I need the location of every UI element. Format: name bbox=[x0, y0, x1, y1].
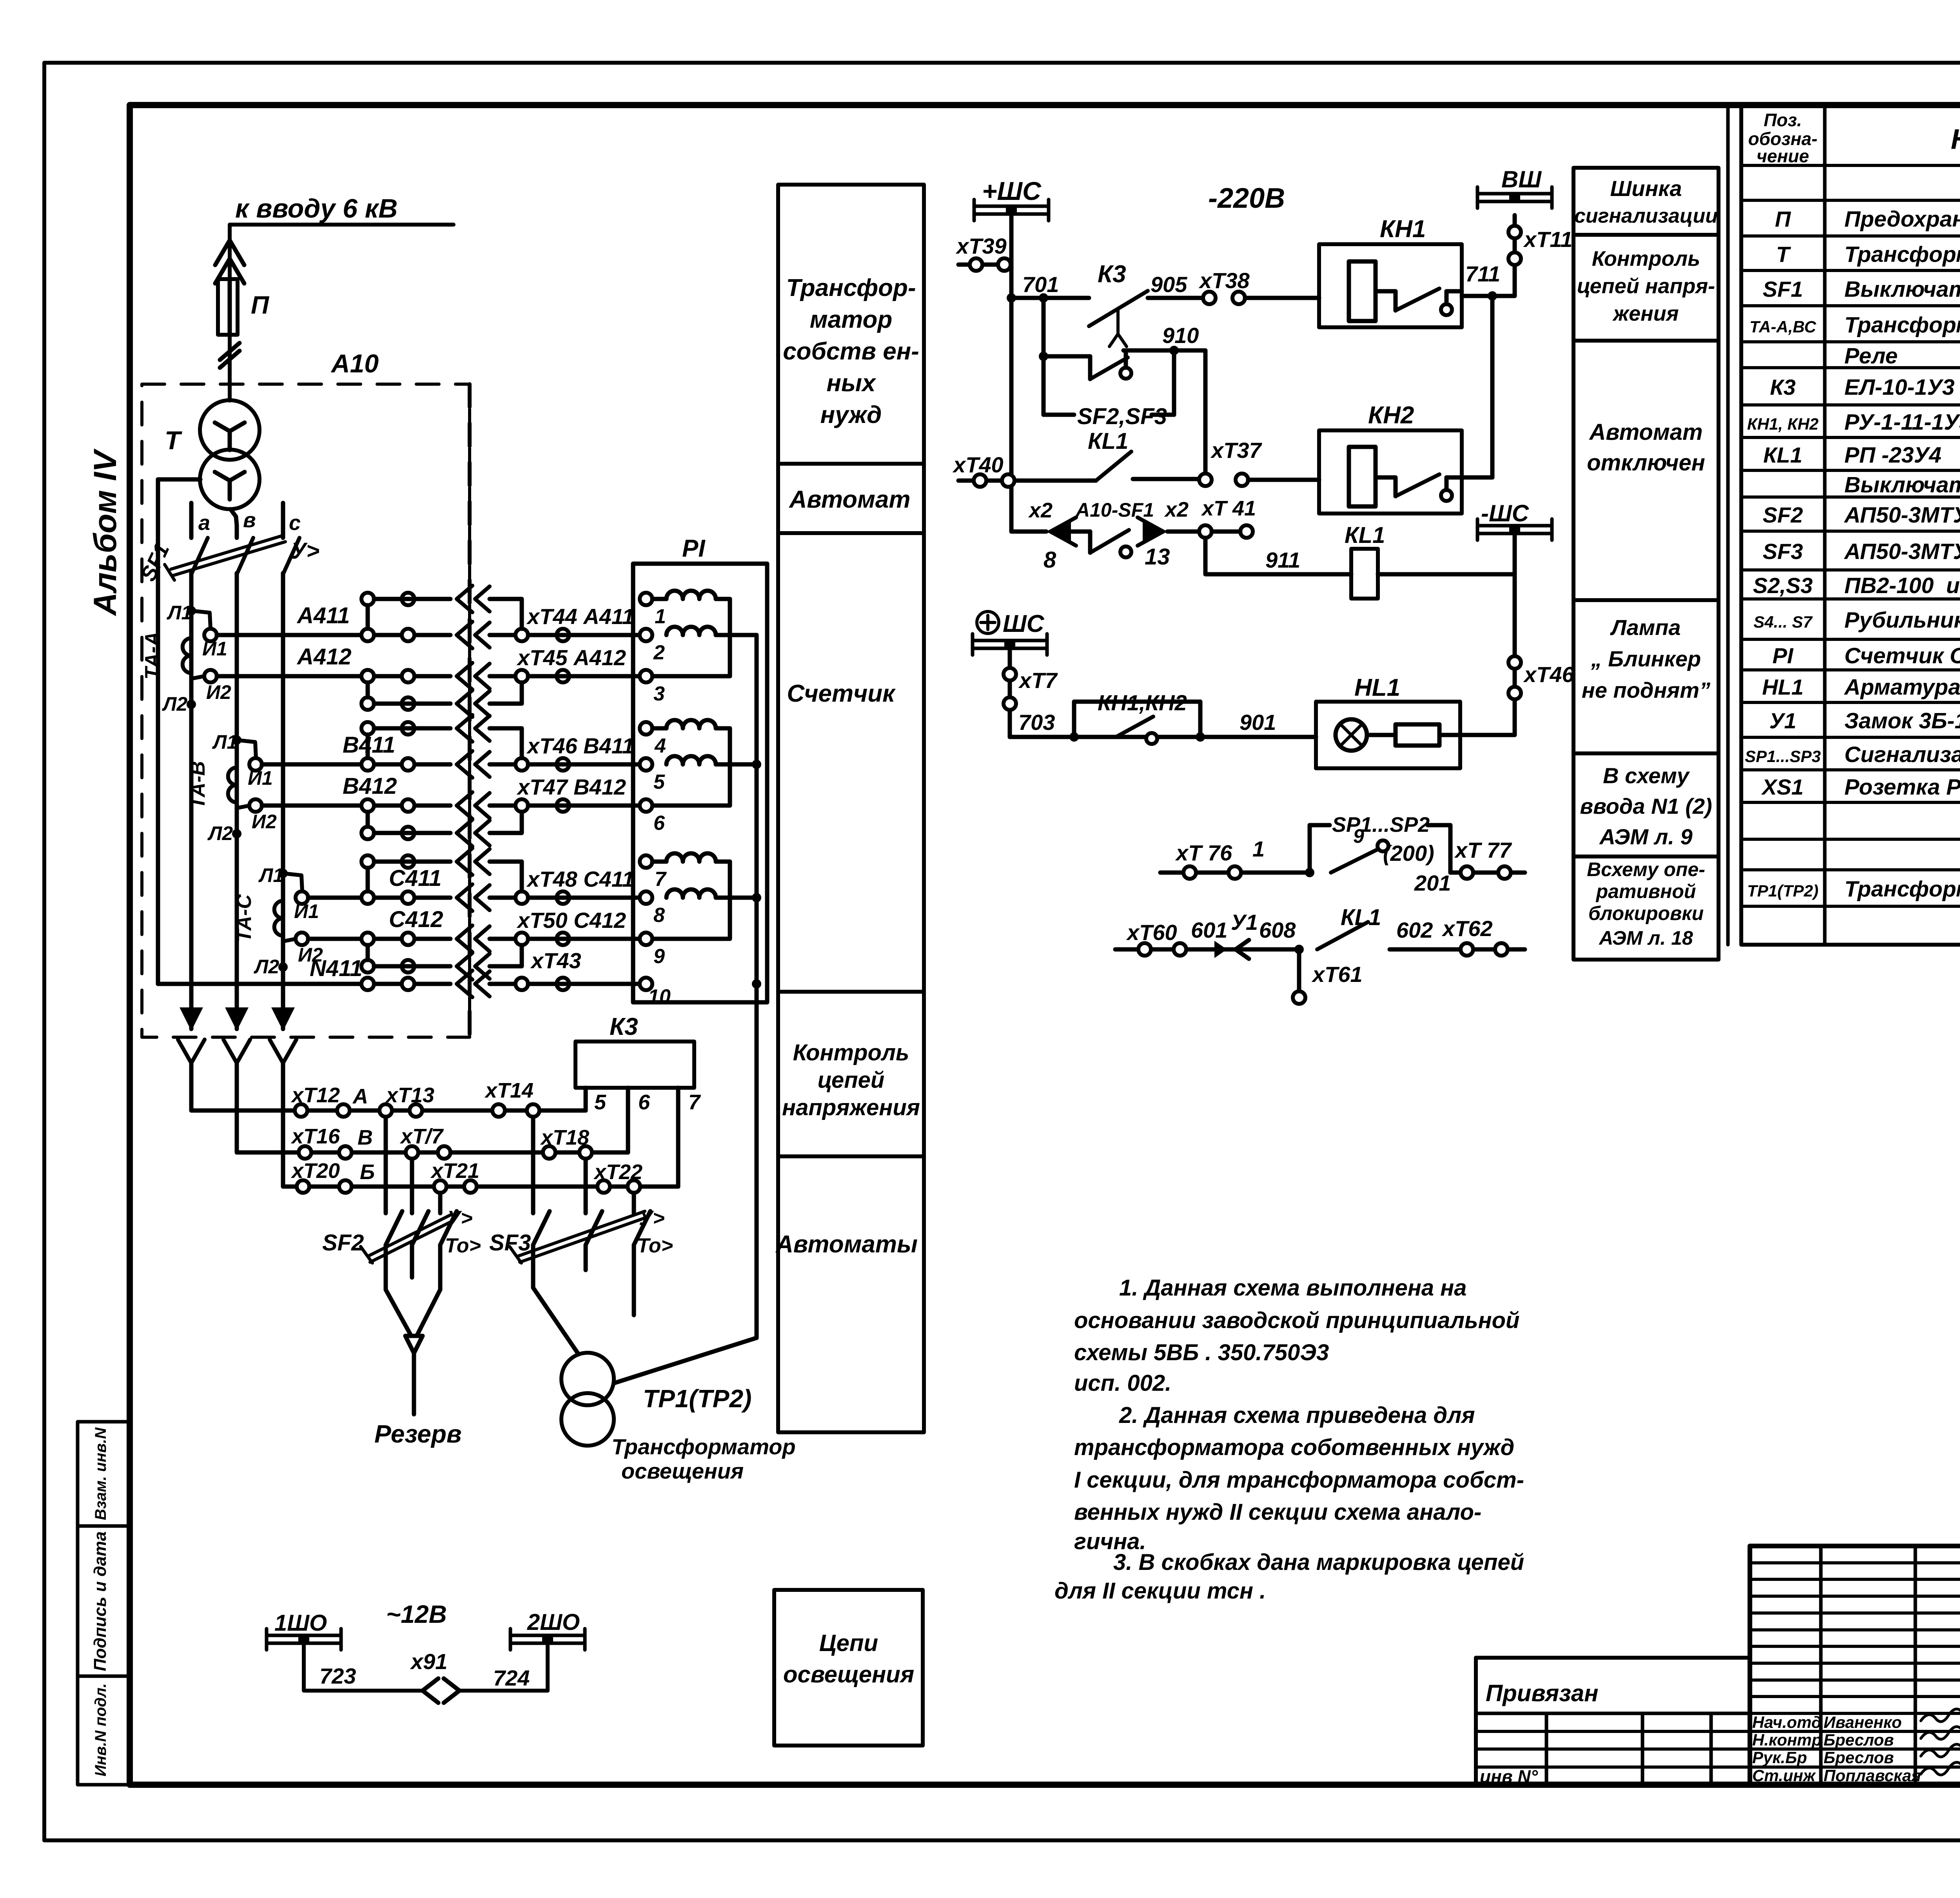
svg-text:хТ46: хТ46 bbox=[1523, 662, 1574, 687]
svg-text:х91: х91 bbox=[410, 1649, 447, 1674]
breaker SF3 (three-pole) bbox=[489, 1117, 673, 1315]
wire В412 bbox=[249, 773, 646, 819]
svg-text:Привязан: Привязан bbox=[1486, 1680, 1598, 1706]
svg-text:8: 8 bbox=[1044, 547, 1056, 573]
svg-text:Поплавская: Поплавская bbox=[1824, 1766, 1921, 1785]
arrow up (to 6kV input) bbox=[215, 240, 244, 283]
svg-text:собств ен-: собств ен- bbox=[783, 338, 919, 365]
svg-text:ШС: ШС bbox=[1003, 610, 1045, 637]
svg-text:(200): (200) bbox=[1383, 841, 1434, 866]
table row SF1 bbox=[1763, 276, 1960, 302]
svg-text:601: 601 bbox=[1191, 918, 1227, 942]
svg-text:Сигнализатор дуговых замыканий: Сигнализатор дуговых замыканий bbox=[1844, 742, 1960, 767]
svg-text:Наименование: Наименование bbox=[1951, 124, 1960, 155]
svg-text:А411: А411 bbox=[296, 603, 350, 628]
lighting transformer ТР1(ТР2) bbox=[533, 1288, 796, 1483]
svg-text:цепей: цепей bbox=[818, 1067, 885, 1093]
svg-text:К3: К3 bbox=[610, 1013, 638, 1040]
shorting link upper (ТА-С) bbox=[361, 848, 522, 891]
svg-text:SF1: SF1 bbox=[1763, 277, 1803, 301]
table row Т bbox=[1776, 241, 1960, 267]
svg-text:5: 5 bbox=[653, 771, 665, 793]
svg-text:724: 724 bbox=[493, 1666, 530, 1690]
svg-text:инв N°: инв N° bbox=[1480, 1766, 1538, 1787]
wire С412 bbox=[296, 907, 646, 952]
svg-text:У>: У> bbox=[639, 1207, 665, 1230]
svg-text:723: 723 bbox=[319, 1664, 356, 1688]
svg-text:Л2: Л2 bbox=[254, 956, 279, 978]
svg-text:отключен: отключен bbox=[1587, 450, 1705, 475]
table header bbox=[1748, 110, 1960, 166]
bus ВШ bbox=[1477, 166, 1552, 208]
reserve feeder arrow (Резерв) bbox=[374, 1290, 462, 1448]
table row У1 bbox=[1769, 708, 1960, 733]
svg-text:ных: ных bbox=[827, 370, 877, 397]
svg-text:РУ-1-11-1У3 0,1А: РУ-1-11-1У3 0,1А bbox=[1844, 410, 1960, 435]
svg-text:703: 703 bbox=[1018, 710, 1055, 735]
svg-text:КL1: КL1 bbox=[1341, 905, 1381, 930]
plug-in contact (выдвижной элемент) bbox=[270, 984, 296, 1086]
svg-text:С411: С411 bbox=[389, 866, 441, 891]
svg-text:Контроль: Контроль bbox=[793, 1040, 909, 1065]
svg-text:РП -23У4 -220В: РП -23У4 -220В bbox=[1844, 443, 1960, 468]
svg-text:хТ43: хТ43 bbox=[530, 948, 581, 973]
svg-text:Автомат: Автомат bbox=[788, 486, 910, 513]
svg-text:схемы 5ВБ . 350.750Э3: схемы 5ВБ . 350.750Э3 bbox=[1074, 1340, 1329, 1365]
table row КН1, КН2 bbox=[1747, 409, 1960, 435]
svg-text:НL1: НL1 bbox=[1762, 675, 1804, 699]
wire row A (хТ12 А хТ13 хТ14) bbox=[191, 1079, 586, 1117]
plug-in contact (выдвижной элемент) bbox=[223, 984, 250, 1086]
svg-text:Л1: Л1 bbox=[167, 602, 192, 624]
svg-text:910: 910 bbox=[1162, 323, 1199, 348]
svg-text:Реле: Реле bbox=[1844, 343, 1898, 368]
svg-text:S4... S7: S4... S7 bbox=[1753, 613, 1813, 631]
svg-text:хТ7: хТ7 bbox=[1018, 668, 1058, 693]
svg-text:Автомат: Автомат bbox=[1588, 419, 1702, 445]
svg-text:К3: К3 bbox=[1098, 261, 1126, 288]
svg-text:И2: И2 bbox=[206, 681, 231, 703]
title block narrow grid rows bbox=[1750, 1563, 1960, 1767]
wire row B (хТ16 В хТ17 хТ18) bbox=[237, 1086, 628, 1159]
svg-text:608: 608 bbox=[1259, 918, 1296, 942]
svg-text:КL1: КL1 bbox=[1345, 523, 1385, 548]
svg-text:Замок 3Б-1У3: Замок 3Б-1У3 bbox=[1844, 708, 1960, 733]
svg-text:хТ61: хТ61 bbox=[1311, 962, 1363, 987]
svg-text:Всхему опе-: Всхему опе- bbox=[1587, 858, 1705, 880]
svg-text:А412: А412 bbox=[296, 644, 352, 670]
svg-text:АП50-3МТУ3 Ур 50А отс.11: АП50-3МТУ3 Ур 50А отс.11 bbox=[1844, 503, 1960, 528]
table row ХS1 bbox=[1761, 774, 1960, 800]
svg-text:Подпись и дата: Подпись и дата bbox=[91, 1531, 110, 1671]
svg-text:2ШО: 2ШО bbox=[527, 1609, 580, 1635]
label Автомат отключен bbox=[1587, 419, 1705, 475]
svg-text:Л1: Л1 bbox=[212, 731, 238, 753]
transformer secondary to three phases bbox=[198, 508, 301, 535]
svg-text:Инв.N подл.: Инв.N подл. bbox=[92, 1683, 109, 1776]
svg-text:хТ21: хТ21 bbox=[430, 1159, 479, 1183]
svg-text:хТ46 В411: хТ46 В411 bbox=[526, 733, 634, 758]
wire feeder vertical bbox=[228, 225, 232, 384]
svg-text:в: в bbox=[243, 508, 256, 532]
svg-text:хТ22: хТ22 bbox=[593, 1160, 642, 1184]
contact КL1 (row 3) bbox=[1011, 428, 1199, 481]
svg-text:711: 711 bbox=[1465, 261, 1500, 286]
svg-text:Нач.отд: Нач.отд bbox=[1752, 1713, 1822, 1731]
svg-text:905: 905 bbox=[1151, 272, 1187, 297]
svg-text:1: 1 bbox=[1252, 836, 1265, 861]
label Автомат bbox=[788, 486, 910, 513]
lighting bus 2ШО bbox=[510, 1609, 585, 1650]
terminal хТ7 bbox=[1004, 650, 1058, 737]
terminal хТ46 bbox=[1508, 574, 1574, 735]
svg-text:НL1: НL1 bbox=[1354, 674, 1400, 701]
bus ⊕ШС bbox=[973, 610, 1047, 655]
svg-text:I секции, для трансформатора: I секции, для трансформатора собст- bbox=[1074, 1467, 1524, 1493]
table row Реле bbox=[1844, 343, 1898, 368]
svg-text:ВШ: ВШ bbox=[1501, 166, 1542, 192]
title block frame bbox=[1750, 1546, 1960, 1785]
relay К3 box (voltage control) bbox=[575, 1013, 701, 1187]
table row SF3 bbox=[1763, 539, 1960, 564]
svg-text:КН1, КН2: КН1, КН2 bbox=[1747, 415, 1818, 433]
svg-text:ТР1(ТР2): ТР1(ТР2) bbox=[643, 1384, 751, 1413]
svg-text:1: 1 bbox=[655, 605, 666, 628]
wire 910 loop with contact bbox=[1039, 298, 1205, 475]
svg-text:„ Блинкер: „ Блинкер bbox=[1591, 646, 1701, 671]
svg-text:Т: Т bbox=[1776, 242, 1791, 267]
function column box bbox=[778, 185, 924, 1432]
svg-text:7: 7 bbox=[688, 1091, 701, 1114]
svg-text:Л1: Л1 bbox=[258, 864, 284, 886]
table row П bbox=[1775, 206, 1960, 232]
svg-text:хТ44 А411: хТ44 А411 bbox=[526, 604, 634, 629]
shorting link lower (ТА-А) bbox=[361, 682, 522, 717]
svg-text:не поднят”: не поднят” bbox=[1582, 678, 1710, 702]
svg-text:911: 911 bbox=[1265, 548, 1300, 572]
svg-text:5: 5 bbox=[594, 1091, 606, 1114]
svg-text:Бреслов: Бреслов bbox=[1824, 1731, 1894, 1749]
svg-text:хТ62: хТ62 bbox=[1441, 916, 1493, 941]
svg-text:Иваненко: Иваненко bbox=[1824, 1713, 1902, 1731]
svg-text:хТ18: хТ18 bbox=[540, 1126, 589, 1149]
disconnect hatch marks bbox=[220, 343, 240, 368]
svg-text:У1: У1 bbox=[1231, 910, 1258, 934]
svg-text:Поз.: Поз. bbox=[1764, 110, 1802, 130]
svg-text:201: 201 bbox=[1414, 871, 1451, 895]
terminal хТ41 bbox=[1199, 525, 1253, 538]
svg-text:10: 10 bbox=[648, 985, 671, 1008]
table row КL1 bbox=[1763, 442, 1960, 468]
svg-text:~12В: ~12В bbox=[386, 1600, 447, 1628]
svg-text:701: 701 bbox=[1022, 272, 1059, 297]
svg-text:к вводу 6 кВ: к вводу 6 кВ bbox=[235, 194, 397, 223]
svg-text:основании заводской принципи: основании заводской принципиальной bbox=[1074, 1308, 1519, 1333]
terminal хТ38 bbox=[1198, 268, 1319, 304]
svg-text:АЭМ л. 18: АЭМ л. 18 bbox=[1598, 927, 1693, 949]
svg-text:ТА-В: ТА-В bbox=[187, 761, 209, 809]
current transformer ТА-В bbox=[187, 731, 277, 844]
svg-text:9: 9 bbox=[1353, 825, 1364, 847]
svg-text:РI: РI bbox=[682, 535, 706, 562]
svg-text:N411: N411 bbox=[310, 956, 362, 981]
svg-text:-220В: -220В bbox=[1208, 183, 1285, 214]
shorting link upper (ТА-А) bbox=[361, 586, 522, 629]
svg-text:Ст.инж: Ст.инж bbox=[1752, 1766, 1816, 1785]
wire +ШС vertical bbox=[1007, 215, 1016, 532]
svg-text:хТ38: хТ38 bbox=[1198, 268, 1250, 293]
wire 723 Х91 724 bbox=[304, 1644, 548, 1703]
svg-text:Трансформатор ТН3-40/10-81: Трансформатор ТН3-40/10-81 40кВА bbox=[1844, 242, 1960, 267]
svg-text:КН1: КН1 bbox=[1380, 216, 1426, 243]
wire N411 (neutral) bbox=[158, 479, 646, 997]
relay КН2 bbox=[1319, 402, 1462, 514]
svg-text:ративной: ративной bbox=[1595, 880, 1696, 902]
svg-text:SF2: SF2 bbox=[1763, 503, 1803, 527]
svg-text:хТ47 В412: хТ47 В412 bbox=[516, 775, 626, 799]
svg-text:Счетчик: Счетчик bbox=[787, 680, 896, 707]
wire КН2 return to 711 bbox=[1462, 296, 1492, 477]
svg-text:с: с bbox=[289, 511, 301, 535]
svg-text:венных нужд II секции схема: венных нужд II секции схема анало- bbox=[1074, 1499, 1481, 1525]
svg-text:901: 901 bbox=[1240, 710, 1276, 735]
terminal хТ40 bbox=[952, 452, 1014, 487]
svg-text:У1: У1 bbox=[1769, 708, 1796, 733]
svg-text:Арматура АЕ32522лУ2 -220В: Арматура АЕ32522лУ2 -220В bbox=[1844, 675, 1960, 700]
svg-text:хТ39: хТ39 bbox=[955, 234, 1007, 258]
svg-text:А10-SF1: А10-SF1 bbox=[1075, 499, 1154, 521]
bus -ШС bbox=[1477, 500, 1552, 574]
svg-text:А10: А10 bbox=[330, 349, 379, 378]
label Автоматы bbox=[775, 1231, 918, 1258]
terminal хТ11 bbox=[1508, 215, 1572, 296]
svg-text:С412: С412 bbox=[389, 907, 443, 932]
node к вводу 6 кВ bbox=[230, 194, 454, 225]
shorting link upper (ТА-В) bbox=[361, 715, 522, 758]
svg-text:SF2: SF2 bbox=[322, 1230, 364, 1256]
svg-text:хТ 76: хТ 76 bbox=[1175, 840, 1232, 865]
svg-text:П: П bbox=[251, 291, 270, 319]
svg-text:6: 6 bbox=[653, 812, 665, 835]
svg-text:хТ 77: хТ 77 bbox=[1454, 838, 1512, 862]
svg-text:хТ60: хТ60 bbox=[1126, 920, 1177, 945]
svg-text:для II секции тсн .: для II секции тсн . bbox=[1054, 1578, 1266, 1604]
plug contacts Х2 А10-SF1 Х2 (row 4) bbox=[1011, 497, 1256, 573]
svg-text:+ШС: +ШС bbox=[982, 176, 1042, 205]
door lock У1 / КL1 interlock circuit bbox=[1115, 905, 1525, 1004]
svg-text:хТ 41: хТ 41 bbox=[1201, 497, 1256, 520]
svg-text:сигнализации: сигнализации bbox=[1574, 205, 1718, 227]
svg-text:ТР1(ТР2): ТР1(ТР2) bbox=[1747, 882, 1818, 900]
table row К3 bbox=[1770, 374, 1960, 400]
svg-text:исп. 002.: исп. 002. bbox=[1074, 1370, 1171, 1396]
wire 701 / contact К3 bbox=[1011, 261, 1203, 347]
svg-text:блокировки: блокировки bbox=[1588, 902, 1704, 924]
svg-text:ТА-А: ТА-А bbox=[141, 631, 164, 679]
box Цепи освещения bbox=[774, 1590, 923, 1746]
svg-text:нужд: нужд bbox=[820, 401, 882, 428]
svg-text:А: А bbox=[352, 1085, 368, 1108]
svg-text:Цепи: Цепи bbox=[819, 1630, 878, 1656]
wire С411 bbox=[296, 866, 646, 911]
svg-text:хТ/7: хТ/7 bbox=[399, 1125, 444, 1148]
svg-text:К3: К3 bbox=[1770, 375, 1796, 399]
svg-text:Автоматы: Автоматы bbox=[775, 1231, 918, 1258]
svg-text:4: 4 bbox=[654, 735, 666, 757]
label Контроль цепей напряжения bbox=[1577, 247, 1715, 325]
svg-text:SF3: SF3 bbox=[1763, 539, 1803, 564]
svg-text:У>: У> bbox=[447, 1207, 473, 1230]
transformer Т (two windings) bbox=[165, 384, 260, 509]
dashed boundary vertical (А10 right edge) bbox=[468, 384, 472, 1037]
svg-text:Рук.Бр: Рук.Бр bbox=[1752, 1748, 1807, 1767]
svg-text:Альбом IV: Альбом IV bbox=[87, 448, 123, 616]
svg-text:3. В скобках дана маркировка: 3. В скобках дана маркировка цепей bbox=[1113, 1550, 1524, 1575]
svg-text:КН1,КН2: КН1,КН2 bbox=[1098, 690, 1187, 715]
plug-in contact (выдвижной элемент) bbox=[178, 984, 205, 1086]
svg-text:ЕЛ-10-1У3 ~ 380В: ЕЛ-10-1У3 ~ 380В bbox=[1844, 375, 1960, 400]
svg-text:Взам. инв.N: Взам. инв.N bbox=[92, 1427, 109, 1520]
label Лампа Блинкер не поднят bbox=[1582, 615, 1710, 702]
svg-text:ввода N1 (2): ввода N1 (2) bbox=[1580, 794, 1712, 818]
svg-text:И2: И2 bbox=[252, 811, 277, 833]
svg-text:КL1: КL1 bbox=[1763, 443, 1802, 467]
svg-text:чение: чение bbox=[1757, 146, 1809, 166]
svg-text:хТ16: хТ16 bbox=[290, 1125, 340, 1148]
svg-text:жения: жения bbox=[1612, 302, 1679, 325]
table row ТР1(ТР2) bbox=[1747, 876, 1960, 902]
svg-text:хТ14: хТ14 bbox=[484, 1079, 534, 1102]
svg-text:хТ11: хТ11 bbox=[1523, 227, 1572, 252]
svg-text:В схему: В схему bbox=[1603, 763, 1690, 788]
svg-text:Шинка: Шинка bbox=[1610, 176, 1682, 201]
svg-text:АЭМ л. 9: АЭМ л. 9 bbox=[1599, 824, 1692, 849]
svg-text:Л2: Л2 bbox=[207, 822, 233, 844]
svg-text:хТ12: хТ12 bbox=[290, 1083, 340, 1107]
breaker SF2 (three-pole) bbox=[322, 1117, 481, 1290]
svg-text:хТ13: хТ13 bbox=[385, 1083, 434, 1107]
margin label Альбом IV bbox=[87, 448, 123, 616]
left margin stamp strip bbox=[78, 1422, 130, 1785]
svg-text:Розетка РШ-Ц-2-0- 00-6/220: Розетка РШ-Ц-2-0- 00-6/220 bbox=[1844, 775, 1960, 800]
svg-text:SР1...SР3: SР1...SР3 bbox=[1745, 747, 1821, 766]
svg-text:2. Данная схема приведена д: 2. Данная схема приведена для bbox=[1119, 1403, 1475, 1428]
svg-text:КL1: КL1 bbox=[1088, 428, 1128, 454]
wire А411 bbox=[204, 603, 646, 648]
shorting link lower (ТА-В) bbox=[361, 812, 522, 846]
svg-text:х2: х2 bbox=[1164, 498, 1189, 521]
svg-text:П: П bbox=[1775, 207, 1791, 231]
label В схему ввода N1(2) АЭМ л.9 bbox=[1580, 763, 1712, 849]
label Всхему оперативной блокировки АЭМ л.18 bbox=[1587, 858, 1705, 949]
table row РI bbox=[1773, 643, 1960, 668]
wire В411 bbox=[249, 732, 646, 778]
table row SР1...SР3 bbox=[1745, 742, 1960, 767]
svg-text:То>: То> bbox=[445, 1234, 481, 1257]
svg-text:освещения: освещения bbox=[783, 1661, 914, 1688]
svg-text:Бреслов: Бреслов bbox=[1824, 1748, 1894, 1767]
current transformer ТА-А bbox=[141, 602, 231, 715]
table row S4... S7 bbox=[1753, 607, 1960, 633]
svg-text:освещения: освещения bbox=[621, 1459, 744, 1483]
wire from meter to lighting transformer bbox=[615, 1002, 757, 1383]
wire phase a vertical bbox=[189, 503, 194, 1029]
svg-text:КН2: КН2 bbox=[1368, 402, 1414, 429]
label -220В bbox=[1208, 183, 1285, 214]
wire 911 / relay coil KL1 bbox=[1205, 523, 1515, 599]
svg-text:ТА-С: ТА-С bbox=[233, 894, 256, 942]
svg-text:хТ50 С412: хТ50 С412 bbox=[516, 908, 626, 933]
svg-text:РI: РI bbox=[1773, 643, 1794, 668]
svg-text:1ШО: 1ШО bbox=[274, 1610, 327, 1636]
svg-text:6: 6 bbox=[638, 1091, 650, 1114]
svg-text:В: В bbox=[358, 1126, 373, 1149]
svg-text:цепей напря-: цепей напря- bbox=[1577, 274, 1715, 298]
svg-text:8: 8 bbox=[653, 904, 665, 927]
svg-text:7: 7 bbox=[655, 868, 667, 891]
svg-text:Трансформатор ОСМ1-0,4У3: Трансформатор ОСМ1-0,4У3 bbox=[1844, 876, 1960, 902]
svg-text:У>: У> bbox=[291, 538, 319, 564]
meter PI internal coils and terminals bbox=[640, 591, 761, 1008]
label Трансформатор собственных нужд bbox=[783, 274, 919, 428]
svg-text:1. Данная схема выполнена н: 1. Данная схема выполнена на bbox=[1119, 1275, 1467, 1301]
lighting bus 1ШО bbox=[267, 1610, 341, 1650]
shorting link lower (ТА-С) bbox=[361, 945, 522, 980]
terminal хТ39 bbox=[955, 234, 1011, 271]
svg-text:-ШС: -ШС bbox=[1481, 500, 1530, 526]
relay КН1 bbox=[1319, 216, 1462, 327]
svg-text:SF3: SF3 bbox=[489, 1230, 531, 1256]
table row Выключатели bbox=[1844, 472, 1960, 497]
svg-text:хТ48 С411: хТ48 С411 bbox=[526, 867, 634, 891]
svg-text:То>: То> bbox=[637, 1234, 673, 1257]
meter PI (счетчик) box bbox=[633, 535, 767, 1002]
svg-text:ПВ2-100 исп. 3: ПВ2-100 исп. 3 bbox=[1844, 573, 1960, 598]
svg-text:Т: Т bbox=[165, 426, 182, 455]
wire А412 bbox=[204, 644, 646, 690]
svg-text:хТ45 А412: хТ45 А412 bbox=[516, 645, 626, 670]
svg-text:3: 3 bbox=[653, 682, 665, 705]
title block left stamp (Привязан) bbox=[1476, 1658, 1750, 1787]
bus +ШС bbox=[974, 176, 1049, 221]
dashed box А10 (выдвижной элемент) bbox=[142, 349, 470, 1037]
svg-text:Контроль: Контроль bbox=[1592, 247, 1700, 270]
svg-text:Трансформатор тока: Трансформатор тока bbox=[1844, 312, 1960, 338]
svg-text:Лампа: Лампа bbox=[1610, 615, 1681, 640]
svg-text:х2: х2 bbox=[1028, 499, 1053, 522]
wire 711 bbox=[1462, 261, 1515, 301]
title block signatures bbox=[1752, 1708, 1960, 1785]
notes paragraph bbox=[1054, 1275, 1524, 1604]
wire row Б (хТ20 Б хТ21 хТ22) bbox=[283, 1086, 678, 1193]
label Счетчик bbox=[787, 680, 896, 707]
svg-text:а: а bbox=[198, 511, 210, 535]
svg-text:ХS1: ХS1 bbox=[1761, 775, 1804, 799]
svg-text:Предохранитель ПКТ 101: Предохранитель ПКТ 101 bbox=[1844, 207, 1960, 232]
svg-text:Выключатель АЕ2056-40У3 Ур: Выключатель АЕ2056-40У3 Ур 80А bbox=[1844, 277, 1960, 302]
current transformer ТА-С bbox=[233, 864, 323, 978]
svg-text:2: 2 bbox=[653, 641, 665, 664]
svg-text:Выключатели: Выключатели bbox=[1844, 472, 1960, 497]
svg-text:S2,S3: S2,S3 bbox=[1753, 573, 1813, 598]
svg-text:Трансформатор: Трансформатор bbox=[612, 1434, 796, 1459]
svg-text:напряжения: напряжения bbox=[782, 1095, 920, 1120]
svg-text:SP1...SP2: SP1...SP2 bbox=[1332, 813, 1430, 836]
lamp НL1 (Блинкер) bbox=[1316, 674, 1515, 768]
table row SF2 bbox=[1763, 502, 1960, 528]
svg-text:В412: В412 bbox=[343, 773, 397, 799]
svg-text:9: 9 bbox=[653, 945, 665, 968]
